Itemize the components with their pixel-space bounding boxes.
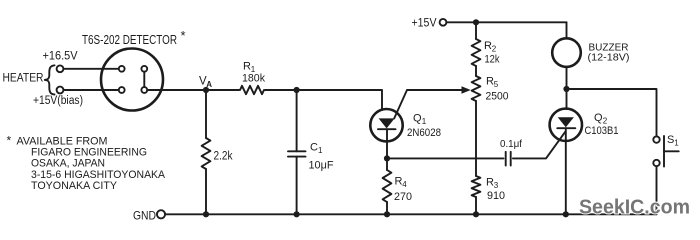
ground rail [165, 213, 656, 215]
detector pin top-left [119, 66, 125, 72]
wire Q1 cathode down [386, 129, 388, 170]
Q2 anode triangle [558, 117, 574, 127]
wire capacitor to Q2 gate [513, 131, 566, 158]
junction 2.2k bottom [203, 211, 209, 217]
svg-text:10μF: 10μF [309, 160, 334, 172]
resistor R4 [383, 170, 392, 202]
detector pin bottom-right [141, 87, 147, 93]
wire switch bottom to ground [656, 166, 658, 214]
svg-text:1: 1 [422, 117, 427, 126]
Q1 cathode bar [378, 128, 396, 130]
resistor 2.2k vertical [205, 90, 207, 138]
buzzer body [552, 38, 581, 67]
svg-text:270: 270 [394, 191, 412, 203]
junction R4 bottom [384, 211, 390, 217]
svg-text:+15V: +15V [412, 18, 437, 30]
heater brace [45, 65, 55, 94]
terminal +15V [440, 19, 447, 26]
wire coupling node to capacitor [387, 157, 504, 159]
node VA junction [203, 87, 209, 93]
svg-text:2500: 2500 [486, 91, 509, 103]
svg-text:12k: 12k [485, 54, 500, 66]
wire buzzer to Q2 anode [566, 67, 568, 109]
svg-text:+15V(bias): +15V(bias) [33, 95, 83, 107]
terminal +15V(bias) [57, 87, 64, 94]
capacitor C1 [296, 90, 298, 151]
wire heater top [63, 68, 119, 70]
svg-text:C: C [310, 142, 318, 154]
svg-text:OSAKA, JAPAN: OSAKA, JAPAN [31, 158, 105, 170]
svg-text:TOYONAKA CITY: TOYONAKA CITY [31, 180, 118, 192]
resistor R3 [472, 176, 481, 197]
junction R2 top [473, 19, 479, 25]
wire R3 to ground [475, 197, 477, 214]
wire R1 to Q1 anode bend [265, 90, 382, 110]
junction R3 bottom [473, 211, 479, 217]
detector pin top-right [141, 66, 147, 72]
svg-text:4: 4 [402, 180, 407, 189]
svg-text:SeekIC.com: SeekIC.com [579, 197, 690, 219]
svg-text:*: * [181, 28, 186, 43]
svg-text:(12-18V): (12-18V) [588, 53, 630, 64]
svg-text:A: A [206, 80, 212, 89]
wire detector to node VA and R1 [147, 89, 239, 91]
svg-text:5: 5 [494, 80, 499, 89]
junction Q1 cathode / coupling node [384, 155, 390, 161]
svg-text:2N6028: 2N6028 [407, 127, 441, 139]
terminal +16.5V [57, 65, 64, 72]
svg-text:S: S [667, 134, 674, 146]
svg-text:3: 3 [494, 181, 499, 190]
switch S1 contact bottom [653, 160, 659, 166]
wire Q1 gate to R5 wiper [394, 90, 463, 118]
svg-text:HEATER: HEATER [3, 73, 44, 85]
junction Q2 cathode bottom [563, 211, 569, 217]
wire R5 to R3 [475, 101, 477, 176]
resistor R2 [475, 22, 477, 39]
svg-text:GND: GND [133, 209, 156, 223]
detector pin bottom-left [119, 87, 125, 93]
wire junction to switch S1 [567, 89, 657, 136]
junction C1 bottom [294, 211, 300, 217]
svg-text:C103B1: C103B1 [585, 125, 619, 137]
junction C1 top [294, 87, 300, 93]
svg-text:1: 1 [674, 139, 679, 148]
potentiometer R5 [472, 76, 481, 101]
svg-text:2: 2 [492, 45, 497, 54]
terminal GND [157, 210, 165, 218]
svg-text:Q: Q [413, 113, 422, 125]
detector internal link pins right [143, 72, 145, 87]
Q2 cathode bar [557, 127, 575, 129]
junction buzzer / switch branch [563, 86, 569, 92]
svg-text:1: 1 [318, 146, 323, 155]
svg-text:* AVAILABLE FROM: * AVAILABLE FROM [7, 134, 108, 148]
wire heater bottom [63, 89, 119, 91]
capacitor 0.1uF plate left [505, 152, 507, 166]
svg-text:2.2k: 2.2k [214, 151, 233, 163]
wire Q2 cathode to ground [565, 128, 567, 214]
svg-text:T6S-202 DETECTOR: T6S-202 DETECTOR [82, 33, 177, 47]
svg-text:+16.5V: +16.5V [43, 51, 78, 63]
svg-text:0.1μf: 0.1μf [500, 138, 522, 150]
SCR Q2 body [550, 109, 582, 141]
capacitor 0.1uF plate right [510, 152, 512, 166]
wire buzzer drop from rail [566, 22, 568, 38]
arrowhead at R5 wiper [462, 86, 471, 94]
svg-text:Q: Q [594, 112, 603, 124]
Q1 anode triangle [379, 118, 395, 128]
resistor R1 [240, 86, 264, 94]
wire R2 to R5 [475, 66, 477, 76]
switch S1 actuator stem [664, 150, 679, 152]
svg-text:180k: 180k [242, 73, 265, 85]
switch S1 actuator bar [663, 136, 665, 167]
wire +15V rail [446, 21, 566, 23]
PUT Q1 body [370, 109, 402, 141]
detector T6S-202 body [101, 49, 163, 111]
svg-text:910: 910 [487, 190, 505, 202]
switch S1 contact top [653, 136, 659, 142]
